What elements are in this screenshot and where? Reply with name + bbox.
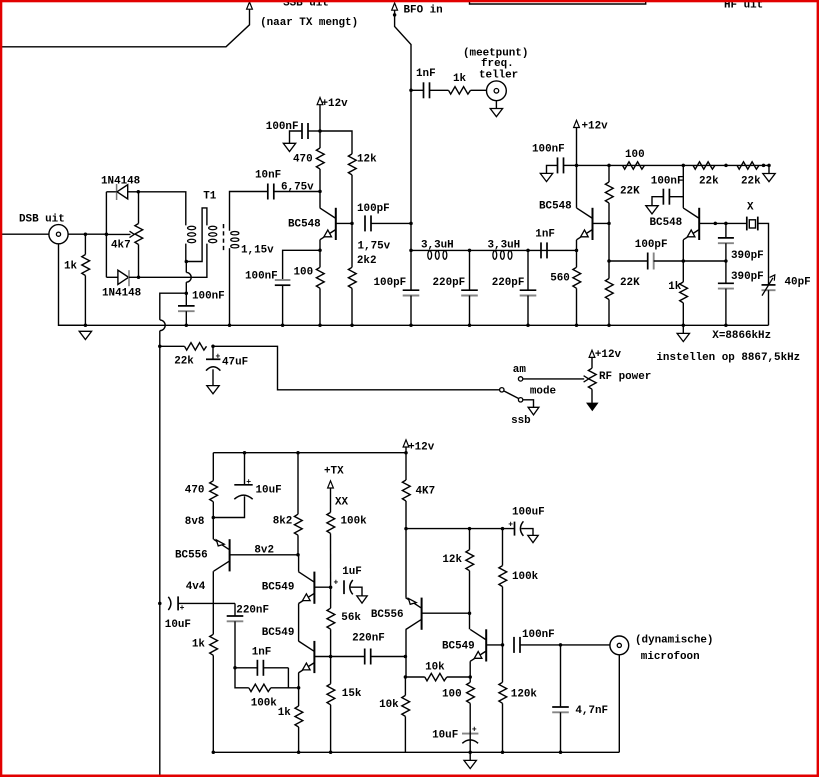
switch blade <box>504 391 519 399</box>
svg-text:XX: XX <box>335 497 349 509</box>
svg-text:15k: 15k <box>342 688 362 700</box>
capacitor 390pF first <box>718 237 734 239</box>
svg-text:100nF: 100nF <box>532 144 565 156</box>
junction filter input <box>409 249 413 253</box>
wire feedback to emitter <box>654 260 726 262</box>
svg-text:12k: 12k <box>357 154 377 166</box>
junction Q3 emitter node <box>682 259 686 263</box>
potentiometer RF power <box>591 357 593 368</box>
wire 100nF top lead <box>185 293 187 306</box>
capacitor 1nF (feedback) <box>235 667 257 669</box>
svg-text:BFO in: BFO in <box>404 4 443 16</box>
wire mic node to connector <box>561 644 610 646</box>
svg-text:22k: 22k <box>174 356 194 368</box>
wire hop T1 vertical over diode row <box>185 262 187 273</box>
capacitor 1nF (filter out) <box>540 242 542 258</box>
capacitor 100nF (emitter bypass) <box>275 279 291 281</box>
svg-text:1N4148: 1N4148 <box>101 176 140 188</box>
ground 100nF Q3 <box>646 206 658 214</box>
wire diode ring left side <box>105 192 107 277</box>
svg-text:390pF: 390pF <box>731 250 764 262</box>
transformer T1 secondary winding <box>231 232 239 235</box>
wire 100nF bottom lead <box>185 311 187 325</box>
ground 100uF <box>528 535 538 542</box>
svg-text:220nF: 220nF <box>236 605 269 617</box>
svg-text:+: + <box>180 604 185 613</box>
node SSB uit arrow <box>247 2 253 9</box>
wire meetpunt to ground <box>495 101 497 109</box>
svg-text:100k: 100k <box>341 516 368 528</box>
junction diode ring left <box>105 232 109 236</box>
junction mic node <box>559 643 563 647</box>
junction T1 primary / 100nF <box>185 260 189 264</box>
junction +12v rail Q1 <box>318 129 322 133</box>
wire BFO line to 1nF <box>411 89 424 91</box>
junction signal/BFO line <box>409 222 413 226</box>
wire main ground bus <box>59 324 769 326</box>
junction 4K7 node <box>404 527 408 531</box>
svg-text:(dynamische): (dynamische) <box>635 635 713 647</box>
wire T1 primary lower <box>185 244 187 262</box>
svg-text:+: + <box>334 578 339 587</box>
svg-text:BC549: BC549 <box>442 641 475 653</box>
svg-text:220pF: 220pF <box>492 277 525 289</box>
junction Q2 emitter node <box>575 249 579 253</box>
svg-text:BC549: BC549 <box>262 582 295 594</box>
junction 22k/47uF <box>211 345 215 349</box>
resistor 100 (Q1 emitter) <box>319 250 321 267</box>
junction Q3 collector rail <box>682 164 686 168</box>
resistor 12k (Q7) <box>469 529 471 550</box>
wire 390pF to ground bus <box>725 289 727 326</box>
svg-text:1uF: 1uF <box>342 566 362 578</box>
junction 100/ground bus <box>318 324 322 328</box>
junction 22K/ground bus <box>607 324 611 328</box>
wire left edge to DSB connector <box>2 233 49 235</box>
svg-text:freq.: freq. <box>481 58 514 70</box>
transistor Q8 BC549 <box>485 629 487 661</box>
wire 100nF to mic node <box>520 644 561 646</box>
wire filter row <box>411 249 577 251</box>
svg-text:4K7: 4K7 <box>416 486 436 498</box>
capacitor 4,7nF <box>560 645 562 707</box>
wire bias takeoff with hop over ground bus <box>160 293 187 320</box>
svg-text:6,75v: 6,75v <box>281 182 314 194</box>
capacitor 100nF (Q3) <box>662 189 664 205</box>
svg-text:1k: 1k <box>192 639 206 651</box>
svg-text:1k: 1k <box>453 73 467 85</box>
svg-text:am: am <box>513 364 527 376</box>
junction rail/10uF <box>243 451 247 455</box>
wire 100k row <box>235 668 249 688</box>
capacitor 100nF under T1 <box>178 305 195 307</box>
wire AF +12v rail <box>213 447 406 453</box>
capacitor 100nF (mic coupling) <box>513 637 515 653</box>
wire SSB uit to left edge <box>2 9 250 47</box>
resistor 56k <box>330 587 332 608</box>
capacitor 10uF (input) <box>168 597 171 610</box>
junction top diode / 4k7 <box>137 190 141 194</box>
capacitor 100nF (Q1 rail) <box>301 123 303 139</box>
junction Q1 collector node <box>318 190 322 194</box>
resistor 22k (rail 1) <box>693 162 715 169</box>
power +12v arrow (RF) <box>589 350 595 357</box>
wire bias line down to audio input <box>159 346 161 603</box>
junction 12k top <box>468 527 472 531</box>
junction 8v2 node <box>296 553 300 557</box>
resistor 22k (bias) <box>185 343 207 350</box>
svg-text:100pF: 100pF <box>357 203 390 215</box>
wire T1 secondary bottom to ground bus <box>229 248 231 325</box>
resistor 10k (Q7 load) <box>404 677 406 695</box>
junction Q5 base node <box>329 585 333 589</box>
svg-text:ssb: ssb <box>511 415 531 427</box>
wire rail end to ground <box>768 165 770 173</box>
junction 220nF / 1nF node <box>233 666 237 670</box>
resistor 1k (Q6 emitter) <box>295 706 303 727</box>
svg-text:BC556: BC556 <box>371 609 404 621</box>
svg-text:1k: 1k <box>64 261 78 273</box>
wire rail to 12k <box>320 131 352 154</box>
resistor 100 (rail) <box>623 162 645 169</box>
svg-text:2k2: 2k2 <box>357 255 377 267</box>
resistor 2k2 <box>351 223 353 267</box>
svg-text:T1: T1 <box>203 191 217 203</box>
ground rail end <box>763 174 775 182</box>
resistor 22K (divider top) <box>608 165 610 182</box>
capacitor 1nF (meetpunt) <box>423 82 425 98</box>
svg-text:BC548: BC548 <box>539 201 572 213</box>
capacitor 47uF electrolytic <box>212 346 214 359</box>
svg-text:BC548: BC548 <box>650 217 683 229</box>
wire 10k to Q8 emitter <box>447 676 470 678</box>
wire 1nF to 1k <box>430 89 449 91</box>
ground ssb <box>528 407 539 415</box>
svg-text:8k2: 8k2 <box>273 516 293 528</box>
wire +12v to Q2 rail <box>576 128 578 166</box>
wire feedback row <box>609 260 648 262</box>
capacitor 40pF trimmer <box>762 284 776 286</box>
capacitor 100pF (Q1 base coupling) <box>364 215 366 231</box>
svg-text:47uF: 47uF <box>222 357 248 369</box>
junction Q1 base / divider <box>350 222 354 226</box>
transistor Q7 BC556 <box>421 598 423 630</box>
capacitor 10uF (Q4 bypass) <box>244 453 246 485</box>
wire ssb contact to ground <box>523 400 534 408</box>
transformer T1 primary winding <box>188 226 196 229</box>
wire 1k lower lead <box>84 276 86 326</box>
junction filter cap/ground bus <box>409 324 413 328</box>
capacitor 100pF (filter) <box>410 250 412 290</box>
junction 1k/bottom bus <box>212 751 216 755</box>
wire 100nF to rail <box>308 130 320 132</box>
ground 47uF <box>207 386 219 394</box>
svg-text:10nF: 10nF <box>255 170 281 182</box>
wire DSB connector to diode ring <box>68 233 106 235</box>
svg-text:X=8866kHz: X=8866kHz <box>712 330 771 342</box>
svg-text:100nF: 100nF <box>245 271 278 283</box>
svg-text:10uF: 10uF <box>165 619 191 631</box>
junction 220pF/ground bus <box>468 324 472 328</box>
power +12v arrow (Q1) <box>317 98 323 105</box>
capacitor 220pF first <box>469 250 471 290</box>
capacitor 220nF (Q6 base) <box>331 656 365 658</box>
svg-text:100nF: 100nF <box>522 629 555 641</box>
resistor 8k2 <box>297 453 299 515</box>
svg-text:10k: 10k <box>379 699 399 711</box>
svg-text:100pF: 100pF <box>635 239 668 251</box>
svg-text:100uF: 100uF <box>512 506 545 518</box>
junction BFO line / 1nF <box>409 89 413 93</box>
transistor Q2 BC548 <box>592 208 594 240</box>
resistor 15k <box>330 657 332 684</box>
diode 1N4148 bottom (pointing right) <box>106 276 118 278</box>
junction 100nF/ground bus <box>185 324 189 328</box>
capacitor 220pF second <box>527 250 529 290</box>
svg-text:560: 560 <box>550 273 570 285</box>
junction 2k2/ground bus <box>350 324 354 328</box>
wire T1 middle lower to diode row <box>139 244 207 278</box>
junction 390pF/ground bus <box>724 324 728 328</box>
switch contact am <box>518 377 522 381</box>
svg-text:BC556: BC556 <box>175 550 208 562</box>
svg-text:1nF: 1nF <box>535 229 555 241</box>
svg-text:BC549: BC549 <box>262 627 295 639</box>
svg-text:22K: 22K <box>620 277 640 289</box>
wire DSB connector stem to ground bus <box>59 244 86 325</box>
ground meetpunt <box>490 109 502 117</box>
transistor Q5 BC549 <box>313 572 315 604</box>
resistor 10k (horizontal) <box>425 673 447 680</box>
junction audio input node <box>158 602 162 606</box>
capacitor 100pF (osc feedback) <box>647 253 649 270</box>
resistor 1k (DSB) <box>82 255 90 276</box>
wire T1 center link <box>186 208 207 262</box>
svg-text:470: 470 <box>185 485 205 497</box>
connector DSB uit <box>49 225 68 244</box>
svg-text:X: X <box>747 202 754 214</box>
transistor Q4 BC556 <box>229 539 231 571</box>
power +12v arrow (Q2) <box>574 120 580 127</box>
svg-text:+: + <box>508 521 513 530</box>
svg-text:220pF: 220pF <box>433 277 466 289</box>
wire 100nF to Q3 collector <box>669 196 683 198</box>
svg-text:+12v: +12v <box>322 98 349 110</box>
junction ground bus at 1k <box>84 324 88 328</box>
junction base / 390pF line <box>724 222 728 226</box>
wire 100nF to ground <box>290 131 303 143</box>
junction rail at 726 <box>724 164 728 168</box>
junction Q8 emitter node <box>468 675 472 679</box>
svg-text:1nF: 1nF <box>416 68 436 80</box>
capacitor 10nF <box>267 184 269 200</box>
wire am to RF power wiper <box>523 378 584 380</box>
svg-text:+: + <box>216 353 221 362</box>
wire bias to mode switch <box>213 346 500 390</box>
capacitor 220nF (coupling) <box>234 603 236 616</box>
junction rail/8k2 <box>296 451 300 455</box>
ground oscillator bus <box>682 325 684 333</box>
switch contact ssb <box>518 398 522 402</box>
junction Q2 collector rail <box>575 164 579 168</box>
svg-text:1k: 1k <box>278 707 292 719</box>
switch contact mode <box>500 388 504 392</box>
svg-text:+12v: +12v <box>595 349 622 361</box>
svg-text:1,75v: 1,75v <box>358 241 391 253</box>
svg-text:22k: 22k <box>741 176 761 188</box>
junction bottom diode / 4k7 <box>137 276 141 280</box>
svg-text:+TX: +TX <box>324 466 344 478</box>
black frame notch under top border <box>470 1 646 4</box>
junction filter node 1 <box>468 249 472 253</box>
resistor 100k (feedback) <box>249 684 271 691</box>
capacitor 100nF (Q2 rail) <box>557 157 559 173</box>
transistor Q1 BC548 <box>335 208 337 240</box>
svg-text:RF power: RF power <box>599 371 651 383</box>
junction rail end <box>762 164 766 168</box>
junction bias node <box>158 345 162 349</box>
ground 100nF Q2 <box>540 173 552 181</box>
svg-text:10uF: 10uF <box>256 485 282 497</box>
svg-text:100k: 100k <box>512 571 539 583</box>
resistor 22K (divider bottom) <box>608 261 610 279</box>
wire 1nF around to 100k <box>287 668 289 688</box>
junction 100k top <box>501 527 505 531</box>
svg-text:100: 100 <box>625 149 645 161</box>
junction Q7 collector/10k <box>404 675 408 679</box>
junction rail at 609 <box>607 164 611 168</box>
svg-text:BC548: BC548 <box>288 219 321 231</box>
junction 390pF mid / feedback <box>724 259 728 263</box>
resistor 4K7 <box>405 453 407 480</box>
node BFO in arrow <box>392 3 398 10</box>
resistor 470 (Q4) <box>212 453 214 481</box>
junction Q3 base lead <box>714 222 718 226</box>
connector microfoon <box>610 636 629 655</box>
junction 4,7nF/bottom bus <box>559 751 563 755</box>
crystal X <box>746 217 748 231</box>
resistor 120k <box>502 645 504 682</box>
junction 1k tap <box>84 232 88 236</box>
wire 100nF to ground <box>547 165 558 173</box>
svg-text:120k: 120k <box>511 688 538 700</box>
svg-text:100: 100 <box>294 267 314 279</box>
junction Q7 base/12k/Q8 collector <box>468 611 472 615</box>
wire divider mid <box>608 223 610 261</box>
wire emitter node to 100nF <box>283 250 320 279</box>
svg-text:390pF: 390pF <box>731 271 764 283</box>
junction feedback/Q6 emitter <box>297 686 301 690</box>
resistor 100k (+TX) <box>330 488 332 512</box>
junction rail/4K7 <box>404 451 408 455</box>
svg-text:1nF: 1nF <box>252 647 272 659</box>
wire 10k row <box>405 676 424 678</box>
wire bias to 22k <box>160 345 185 347</box>
wire oscillator rail <box>577 164 770 166</box>
ground RF power (filled) <box>587 403 598 410</box>
svg-text:DSB uit: DSB uit <box>19 214 65 226</box>
resistor 100 (Q8 emitter) <box>469 677 471 682</box>
wire crystal to trimmer branch <box>758 223 769 285</box>
svg-text:470: 470 <box>293 154 313 166</box>
svg-text:+12v: +12v <box>582 121 609 133</box>
junction 1k Q6/bottom bus <box>297 751 301 755</box>
svg-text:10k: 10k <box>425 662 445 674</box>
svg-text:3,3uH: 3,3uH <box>421 240 454 252</box>
resistor 1k (meetpunt) <box>449 87 471 94</box>
resistor 560 (Q2 emitter) <box>576 250 578 267</box>
wire bottom ground bus <box>213 751 619 753</box>
svg-text:4k7: 4k7 <box>111 240 131 252</box>
svg-text:1k: 1k <box>668 281 682 293</box>
wire T1 secondary top to 10nF row <box>230 192 268 231</box>
junction 120k/bottom bus <box>501 751 505 755</box>
svg-text:3,3uH: 3,3uH <box>488 240 521 252</box>
wire 1k upper lead <box>84 234 86 254</box>
junction 1k/ground bus <box>682 324 686 328</box>
svg-text:56k: 56k <box>341 612 361 624</box>
svg-text:22K: 22K <box>620 186 640 198</box>
resistor 22k (rail 2) <box>737 162 759 169</box>
ground 1uF <box>357 596 367 603</box>
svg-text:4v4: 4v4 <box>186 581 206 593</box>
wire mic connector to bottom bus <box>618 655 620 753</box>
transistor Q6 BC549 <box>313 641 315 673</box>
power +TX arrow <box>328 481 334 488</box>
inductor 3,3uH first <box>428 251 432 260</box>
wire +12v to rail node <box>319 105 321 131</box>
wire 10nF to Q1 collector node <box>274 191 320 193</box>
svg-text:(naar TX mengt): (naar TX mengt) <box>260 17 358 29</box>
wire 100nF to rail node <box>564 164 577 166</box>
junction 8v8 node <box>212 516 216 520</box>
svg-text:220nF: 220nF <box>352 633 385 645</box>
wire 390pF divider line <box>725 223 727 238</box>
wire 100nF to ground <box>652 197 663 206</box>
junction 220pF2/ground bus <box>526 324 530 328</box>
wire bias line to page bottom <box>159 603 161 777</box>
resistor 1k (Q3 emitter) <box>682 261 684 282</box>
red page border frame <box>0 0 819 2</box>
junction Q2 base <box>607 222 611 226</box>
junction 15k/bottom bus <box>329 751 333 755</box>
junction on BFO stem <box>393 13 397 17</box>
junction 560/ground bus <box>575 324 579 328</box>
svg-text:12k: 12k <box>442 554 462 566</box>
junction Q6 base node <box>329 655 333 659</box>
resistor 1k (Q4 load) <box>210 634 218 655</box>
junction Q1 emitter node <box>318 249 322 253</box>
svg-text:mode: mode <box>530 386 556 398</box>
resistor 470 (Q1 collector) <box>319 131 321 148</box>
potentiometer RF power wiper arrow <box>584 376 589 382</box>
wire top diode row to T1 primary <box>138 192 186 226</box>
svg-text:100k: 100k <box>251 698 278 710</box>
svg-text:+: + <box>246 478 251 487</box>
svg-text:1,15v: 1,15v <box>241 245 274 257</box>
wire 1k to connector <box>471 89 487 91</box>
inductor 3,3uH second <box>493 251 497 260</box>
svg-text:8v8: 8v8 <box>185 516 205 528</box>
svg-text:100: 100 <box>442 688 462 700</box>
svg-text:microfoon: microfoon <box>641 651 700 663</box>
svg-text:40pF: 40pF <box>785 276 811 288</box>
svg-text:100pF: 100pF <box>374 277 407 289</box>
wire 100k to Q6 emitter <box>271 687 299 689</box>
transformer T1 core (dashed) <box>223 224 225 251</box>
svg-text:teller: teller <box>479 70 518 82</box>
svg-text:8v2: 8v2 <box>254 545 274 557</box>
